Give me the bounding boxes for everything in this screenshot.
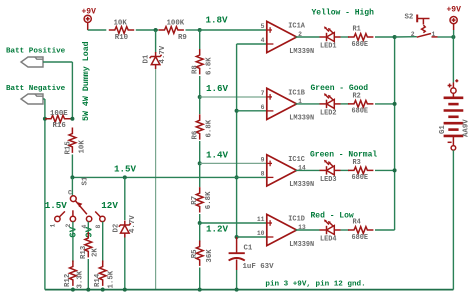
wire D2 to rail: [124, 238, 126, 290]
svg-text:R16: R16: [53, 122, 67, 130]
wire negative down to rail: [44, 99, 46, 290]
op-amp IC1C LM339N: [267, 155, 297, 186]
svg-text:R9: R9: [178, 34, 187, 42]
wire R7 to 1.2V: [199, 214, 201, 223]
svg-text:R15: R15: [64, 141, 72, 155]
svg-text:LM339N: LM339N: [289, 241, 314, 249]
junction R10/R9/D1: [154, 28, 158, 32]
svg-text:S1: S1: [82, 176, 90, 185]
svg-text:R1: R1: [353, 26, 361, 34]
resistor R13 2K: [85, 232, 92, 257]
svg-text:IC1C: IC1C: [288, 156, 305, 164]
wire 1.6V to IC1B +: [200, 96, 267, 98]
svg-text:680E: 680E: [352, 174, 369, 182]
wire S1-2 to R12: [72, 222, 74, 262]
supply +9V right: [450, 17, 457, 24]
svg-text:10: 10: [257, 230, 265, 237]
svg-text:6.8K: 6.8K: [205, 191, 213, 209]
svg-text:D1: D1: [143, 54, 151, 63]
wire R6 to 1.4V: [199, 141, 201, 163]
wire positive down: [71, 62, 73, 119]
junction bus/R2: [393, 102, 397, 106]
wire to S1 common: [71, 177, 73, 195]
svg-text:5: 5: [261, 23, 265, 30]
wire R1 output row: [295, 36, 319, 38]
svg-text:Batt Positive: Batt Positive: [6, 47, 66, 55]
svg-text:2K: 2K: [92, 248, 100, 257]
svg-text:IC1A: IC1A: [288, 23, 305, 31]
wire S1-4 to R13: [87, 222, 89, 234]
wire S1-8 to R14: [102, 222, 104, 262]
svg-text:680E: 680E: [352, 108, 369, 116]
wire LED1 to R1: [341, 36, 350, 38]
wire C1 to ground rail: [236, 270, 238, 290]
resistor R8: [196, 49, 203, 74]
svg-text:1: 1: [432, 31, 436, 38]
wire LED2 to R2: [341, 103, 350, 105]
svg-text:1.4V: 1.4V: [206, 150, 229, 161]
junction 1.4V node: [198, 161, 202, 165]
svg-text:R13: R13: [80, 245, 88, 259]
wire R1 to output bus: [375, 36, 395, 38]
wire R2 output row: [295, 103, 319, 105]
svg-text:10K: 10K: [114, 19, 128, 27]
junction R14-ground: [101, 288, 105, 292]
svg-text:R10: R10: [115, 34, 129, 42]
wire R12 to rail: [72, 288, 74, 290]
svg-text:LED2: LED2: [320, 110, 337, 118]
svg-text:12V: 12V: [101, 200, 118, 211]
svg-text:1.2V: 1.2V: [206, 224, 229, 235]
switch S1 rotary: [55, 196, 105, 222]
svg-text:4: 4: [261, 37, 265, 44]
svg-text:LM339N: LM339N: [289, 115, 314, 123]
svg-text:4.7V: 4.7V: [129, 215, 137, 233]
junction R16 left: [43, 117, 47, 121]
wire output bus vertical: [394, 37, 396, 230]
svg-text:R7: R7: [191, 196, 199, 205]
svg-text:8: 8: [95, 225, 102, 229]
wire bus to S2 pin2: [395, 36, 417, 38]
svg-text:R5: R5: [191, 249, 199, 258]
wire to R6: [199, 97, 201, 114]
svg-text:680E: 680E: [352, 41, 369, 49]
svg-text:Green - Normal: Green - Normal: [310, 150, 377, 159]
wire +9V stub: [87, 22, 89, 30]
junction R12-ground: [71, 288, 75, 292]
wire R10 to node: [136, 29, 158, 31]
svg-text:R14: R14: [94, 273, 102, 287]
svg-text:4.7V: 4.7V: [159, 45, 167, 63]
svg-text:5W 4W Dummy Load: 5W 4W Dummy Load: [81, 41, 91, 121]
op-amp IC1A LM339N: [267, 21, 297, 52]
junction bus/R3: [393, 168, 397, 172]
resistor R7: [196, 187, 203, 212]
junction ref/1.5V rail: [235, 175, 239, 179]
zener D2 4.7V: [119, 221, 131, 238]
junction 1.5V/switch: [70, 175, 74, 179]
wire ref to IC1A -: [237, 43, 267, 45]
wire 1.5V reference rail: [72, 176, 236, 178]
op-amp IC1B LM339N: [267, 88, 297, 119]
svg-text:Batt Negative: Batt Negative: [6, 85, 66, 93]
svg-text:Yellow - High: Yellow - High: [312, 9, 375, 18]
junction battery node: [451, 35, 455, 39]
wire R4 output row: [295, 229, 319, 231]
junction D2-ground: [123, 288, 127, 292]
svg-text:R4: R4: [353, 219, 361, 227]
svg-text:1.5V: 1.5V: [45, 200, 68, 211]
wire Batt Positive: [43, 61, 72, 63]
connector Batt Positive: [21, 57, 43, 67]
svg-text:R12: R12: [64, 274, 72, 287]
svg-text:11: 11: [257, 216, 265, 223]
resistor R14 1.5K: [99, 261, 106, 286]
svg-text:10K: 10K: [78, 140, 86, 154]
wire node to D1: [155, 30, 157, 53]
resistor R10: [109, 27, 134, 34]
junction R13-ground: [86, 288, 90, 292]
svg-text:S2: S2: [405, 14, 414, 22]
svg-text:36K: 36K: [206, 249, 214, 263]
junction bus/R1: [393, 35, 397, 39]
junction 1.6V node: [198, 95, 202, 99]
resistor R15 10K: [69, 128, 76, 153]
wire node to battery +: [452, 37, 454, 83]
svg-text:6: 6: [261, 104, 265, 111]
wire reference column: [236, 44, 238, 237]
wire +9V right stub: [453, 24, 455, 30]
wire R9 to 1.8V node: [186, 29, 200, 31]
svg-text:LED1: LED1: [320, 43, 337, 51]
svg-text:1: 1: [49, 224, 56, 228]
resistor R16 100E: [45, 115, 70, 122]
svg-text:3.3K: 3.3K: [77, 270, 85, 288]
wire R14 to rail: [102, 288, 104, 290]
svg-text:R3: R3: [353, 159, 361, 167]
wire +9V to R10: [88, 29, 107, 31]
op-amp IC1D LM339N: [267, 214, 297, 245]
svg-text:pin 3 +9V, pin 12 gnd.: pin 3 +9V, pin 12 gnd.: [265, 280, 365, 288]
svg-text:1.6V: 1.6V: [206, 83, 229, 94]
wire R15 to 1.5V: [71, 155, 73, 178]
svg-text:7: 7: [261, 90, 265, 97]
wire 1.5V to D2: [124, 177, 126, 220]
wire R13 to rail: [87, 259, 89, 290]
svg-text:R8: R8: [192, 65, 200, 74]
resistor R6: [196, 114, 203, 139]
junction 1.8V node: [198, 28, 202, 32]
svg-text:1.5V: 1.5V: [114, 164, 137, 175]
svg-text:R6: R6: [192, 130, 200, 139]
resistor R3 680E: [348, 167, 373, 174]
wire LED4 to R4: [341, 229, 350, 231]
svg-text:1.5K: 1.5K: [107, 270, 115, 288]
svg-text:1uF 63V: 1uF 63V: [243, 263, 275, 271]
wire R5 to ground rail: [199, 268, 201, 290]
wire ladder top: [199, 30, 201, 49]
junction ladder-ground: [198, 288, 202, 292]
wire ref to IC1D -: [237, 236, 267, 238]
resistor R9: [159, 27, 184, 34]
supply +9V left: [84, 15, 91, 22]
connector Batt Negative: [21, 94, 43, 104]
battery G1 9V: [444, 79, 464, 150]
LED LED1: [320, 26, 341, 41]
wire 1.8V to IC1A +: [200, 29, 267, 31]
svg-text:680E: 680E: [352, 234, 369, 242]
svg-text:6.8K: 6.8K: [206, 57, 214, 75]
svg-text:9: 9: [261, 157, 265, 164]
svg-text:2: 2: [411, 31, 415, 38]
wire battery - to ground rail: [452, 150, 454, 289]
junction ref/IC1D-/C1: [235, 235, 239, 239]
resistor R2 680E: [348, 101, 373, 108]
svg-text:IC1B: IC1B: [288, 89, 305, 97]
junction R16 right: [70, 117, 74, 121]
LED LED4: [320, 219, 341, 234]
svg-text:Green - Good: Green - Good: [311, 84, 369, 93]
svg-text:LED3: LED3: [320, 176, 337, 184]
svg-text:C1: C1: [244, 245, 253, 253]
wire 1.2V to IC1D +: [200, 222, 267, 224]
svg-text:100K: 100K: [167, 20, 185, 28]
junction 1.2V node: [198, 221, 202, 225]
svg-text:C: C: [68, 190, 72, 197]
resistor R4 680E: [348, 227, 373, 234]
wire ref to IC1C -: [237, 176, 267, 178]
resistor R12 3.3K: [70, 261, 77, 286]
resistor R5: [196, 241, 203, 266]
svg-text:G1: G1: [439, 125, 447, 134]
wire to battery node: [453, 30, 455, 37]
svg-text:100E: 100E: [50, 110, 68, 118]
svg-text:LM339N: LM339N: [289, 181, 314, 189]
switch S2: [417, 15, 438, 38]
wire 1.4V to IC1C +: [200, 162, 267, 164]
svg-text:AA9V: AA9V: [463, 119, 471, 137]
svg-text:D2: D2: [112, 224, 120, 233]
junction ref/IC1B-: [235, 109, 239, 113]
svg-text:LED4: LED4: [320, 236, 337, 244]
svg-text:Red - Low: Red - Low: [311, 211, 354, 220]
wire S2 to battery node: [438, 36, 454, 38]
wire to R7: [199, 163, 201, 187]
wire R2 to output bus: [375, 103, 395, 105]
wire R3 output row: [295, 169, 319, 171]
LED LED2: [320, 93, 341, 108]
LED LED3: [320, 160, 341, 175]
wire LED3 to R3: [341, 169, 350, 171]
svg-text:+9V: +9V: [447, 5, 462, 14]
wire to R5: [199, 223, 201, 242]
junction 1.5V/D2: [123, 175, 127, 179]
svg-text:8: 8: [261, 171, 265, 178]
svg-text:R2: R2: [353, 93, 361, 101]
svg-text:6.8K: 6.8K: [206, 119, 214, 137]
wire D1 to ground rail: [155, 69, 157, 290]
junction C1-ground: [235, 288, 239, 292]
wire R3 to output bus: [375, 169, 395, 171]
wire Batt Negative: [43, 98, 45, 100]
wire ground rail: [45, 289, 454, 291]
svg-text:LM339N: LM339N: [289, 48, 314, 56]
svg-text:IC1D: IC1D: [288, 216, 305, 224]
svg-text:1.8V: 1.8V: [206, 14, 229, 25]
wire ref to IC1B -: [237, 110, 267, 112]
wire R8 to 1.6V: [199, 76, 201, 97]
resistor R1 680E: [348, 34, 373, 41]
capacitor C1: [229, 237, 245, 270]
wire R4 to output bus: [375, 229, 395, 231]
zener D1 4.7V: [150, 52, 162, 69]
